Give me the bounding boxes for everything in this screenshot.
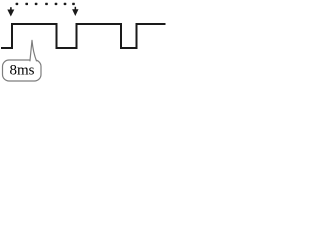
right down arrow: [72, 7, 78, 16]
left down arrow: [7, 7, 14, 16]
background: [0, 0, 167, 88]
square wave: [1, 24, 166, 48]
dotted measurement line: [16, 3, 75, 5]
callout tail: [30, 40, 37, 61]
callout bubble: [3, 60, 42, 81]
svg-text:8ms: 8ms: [10, 63, 35, 79]
